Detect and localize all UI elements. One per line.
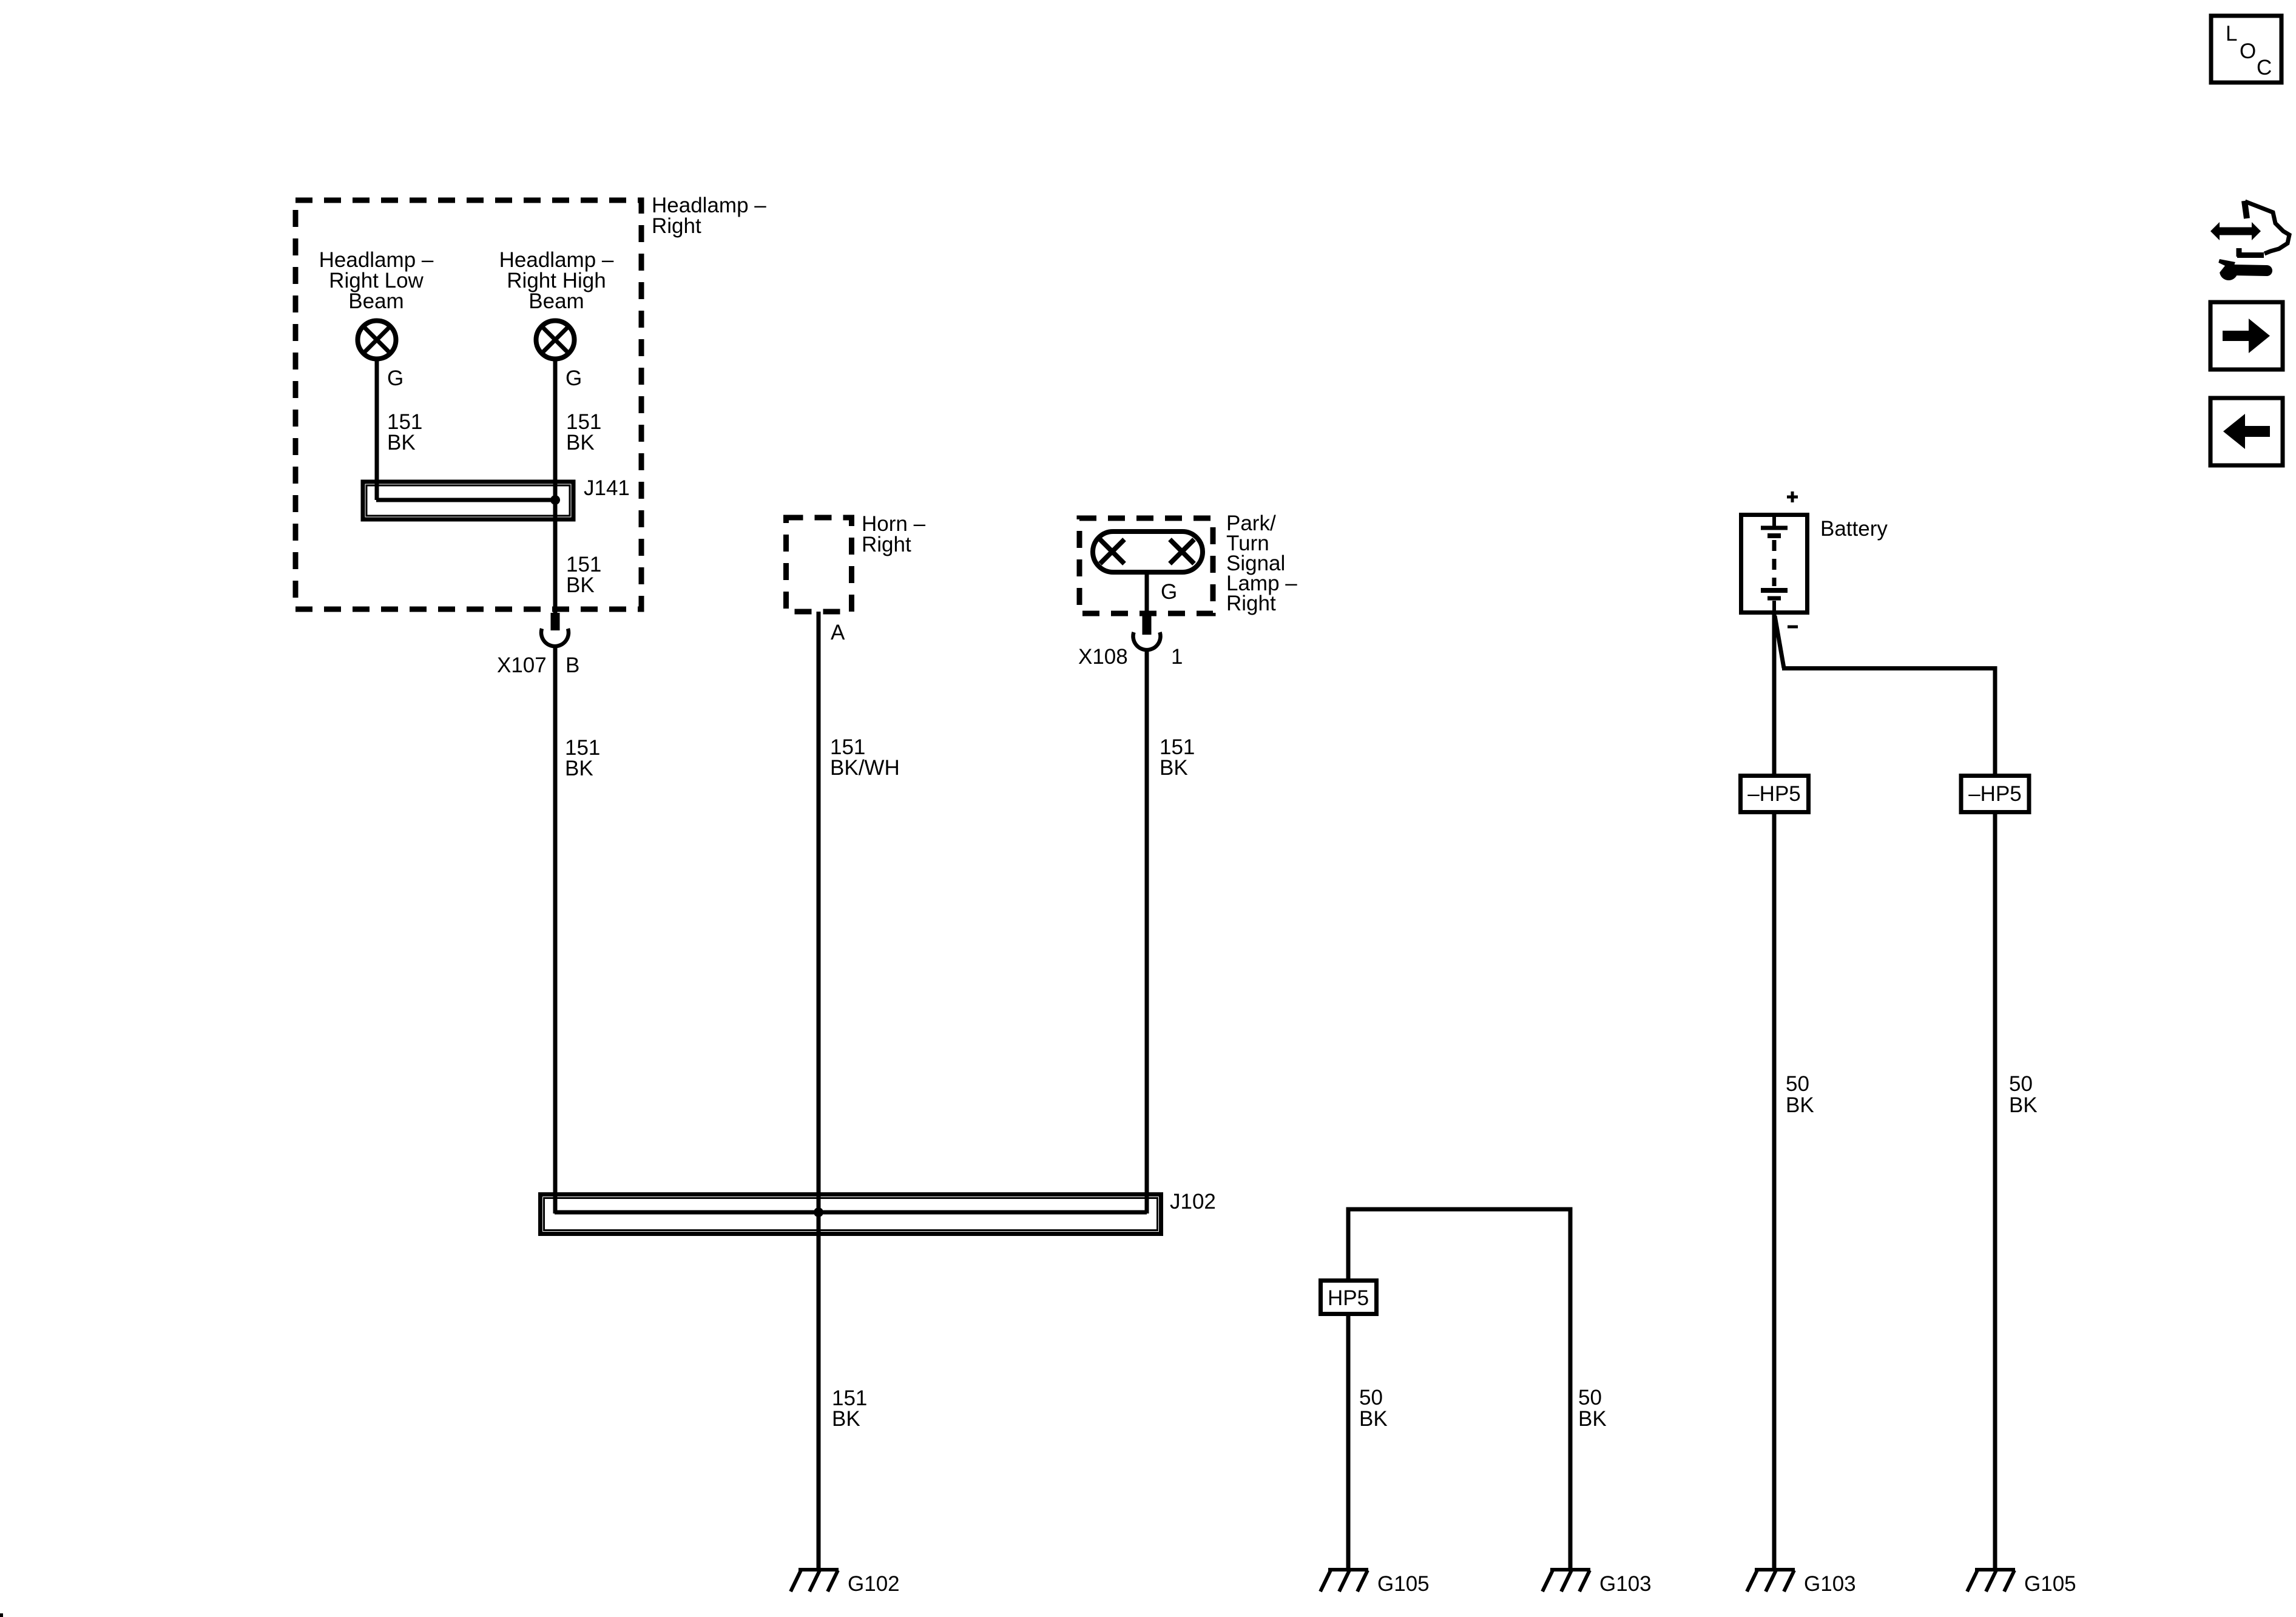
component location icon wrench	[2208, 259, 2267, 280]
svg-text:Right: Right	[862, 533, 911, 556]
svg-text:G: G	[566, 366, 582, 390]
svg-text:BK: BK	[2009, 1093, 2038, 1117]
svg-text:HP5: HP5	[1328, 1286, 1369, 1310]
component location icon body outline	[2237, 201, 2289, 257]
fuse -HP5 left	[1741, 776, 1809, 812]
svg-text:G102: G102	[848, 1572, 900, 1596]
wire label 50 BK battery right	[2009, 1072, 2038, 1117]
wire battery negative to left -HP5	[1772, 615, 1777, 775]
wire label 151 BK low beam	[387, 410, 422, 454]
svg-text:A: A	[831, 621, 845, 644]
svg-text:G: G	[387, 366, 403, 390]
svg-text:–HP5: –HP5	[1968, 782, 2022, 806]
wire label 151 BK/WH	[830, 735, 900, 780]
page corner mark	[0, 1613, 3, 1617]
wire X108 to J102	[1145, 649, 1149, 1214]
wire label 50 BK mid left	[1359, 1386, 1388, 1431]
wire label 50 BK mid right	[1578, 1386, 1607, 1431]
svg-text:C: C	[2257, 56, 2272, 79]
wire label 50 BK battery left	[1786, 1072, 1814, 1117]
svg-text:Beam: Beam	[528, 289, 584, 313]
park/turn signal lamp right dashed box	[1079, 518, 1213, 613]
svg-text:BK: BK	[832, 1407, 860, 1431]
svg-text:BK: BK	[1786, 1093, 1814, 1117]
svg-text:B: B	[566, 653, 579, 677]
svg-text:BK: BK	[565, 757, 593, 780]
svg-text:J102: J102	[1170, 1190, 1216, 1214]
svg-text:X107: X107	[497, 653, 547, 677]
svg-text:BK: BK	[387, 431, 416, 454]
svg-text:1: 1	[1171, 645, 1183, 669]
wire U link HP5 to G103	[1348, 1209, 1570, 1570]
splice J141	[363, 482, 573, 519]
connector X107 pin B	[541, 613, 569, 646]
wire label 151 BK below J102	[832, 1386, 867, 1431]
backward navigation box	[2210, 398, 2283, 465]
svg-text:BK: BK	[566, 431, 595, 454]
forward navigation box	[2210, 302, 2283, 370]
lamp Headlamp Right Low Beam	[358, 321, 396, 359]
svg-text:50: 50	[1578, 1386, 1602, 1409]
wire horn to G102 through J102	[817, 612, 821, 1570]
ground G102	[791, 1570, 839, 1592]
svg-text:L: L	[2226, 22, 2237, 46]
svg-text:X108: X108	[1078, 645, 1128, 669]
svg-text:50: 50	[2009, 1072, 2033, 1096]
label Park/Turn Signal Lamp - Right	[1226, 511, 1297, 615]
svg-text:O: O	[2240, 39, 2256, 63]
svg-text:Beam: Beam	[348, 289, 403, 313]
label Headlamp - Right	[652, 194, 766, 238]
svg-text:Right: Right	[652, 214, 701, 238]
svg-text:50: 50	[1359, 1386, 1383, 1409]
wire label 151 BK left long wire	[565, 736, 600, 780]
lamp park/turn dual filament	[1093, 532, 1203, 572]
svg-text:J141: J141	[584, 476, 630, 500]
splice J102	[541, 1195, 1161, 1234]
wire label 151 BK park/turn	[1160, 735, 1195, 780]
wire low beam to J141	[375, 359, 379, 500]
ground G103 battery	[1747, 1570, 1795, 1592]
svg-text:BK/WH: BK/WH	[830, 756, 900, 780]
battery minus sign	[1788, 626, 1798, 629]
fuse -HP5 right	[1961, 776, 2029, 812]
wire branch horizontal	[1782, 666, 1995, 670]
svg-text:G: G	[1161, 580, 1177, 604]
wire high beam through J141 to X107	[553, 359, 558, 613]
wire branch diagonal	[1775, 616, 1784, 668]
LOC legend box	[2211, 16, 2281, 83]
wire X107 to J102	[553, 646, 558, 1214]
headlamp right assembly dashed box	[295, 200, 641, 609]
wire label 151 BK high beam	[566, 410, 601, 454]
wire right -HP5 to G105	[1993, 812, 1997, 1570]
battery	[1741, 515, 1808, 613]
wire branch down to right -HP5	[1993, 666, 1997, 775]
svg-text:–HP5: –HP5	[1747, 782, 1801, 806]
component location icon double arrow	[2210, 222, 2261, 240]
svg-text:Battery: Battery	[1820, 517, 1888, 541]
fuse HP5	[1321, 1281, 1377, 1314]
horn right dashed box	[786, 518, 852, 612]
lamp Headlamp Right High Beam	[536, 321, 575, 359]
connector X108 pin 1	[1133, 616, 1161, 650]
svg-text:Right: Right	[1226, 592, 1276, 615]
svg-text:G105: G105	[2024, 1572, 2076, 1596]
wire lamp to X108	[1145, 572, 1149, 616]
ground G105 right	[1967, 1570, 2015, 1592]
ground G105 mid	[1320, 1570, 1368, 1592]
ground G103 mid	[1542, 1570, 1590, 1592]
svg-text:G105: G105	[1377, 1572, 1430, 1596]
wire left -HP5 to G103	[1772, 812, 1777, 1570]
svg-text:50: 50	[1786, 1072, 1809, 1096]
svg-text:BK: BK	[1160, 756, 1188, 780]
battery plus sign	[1787, 491, 1798, 502]
label Headlamp - Right High Beam	[499, 248, 614, 313]
label Headlamp - Right Low Beam	[319, 248, 434, 313]
svg-text:G103: G103	[1804, 1572, 1856, 1596]
svg-text:BK: BK	[1359, 1407, 1388, 1431]
svg-text:BK: BK	[566, 573, 595, 597]
svg-text:G103: G103	[1599, 1572, 1652, 1596]
label Horn - Right	[862, 512, 926, 556]
svg-text:BK: BK	[1578, 1407, 1607, 1431]
wire label 151 BK below J141	[566, 553, 601, 597]
